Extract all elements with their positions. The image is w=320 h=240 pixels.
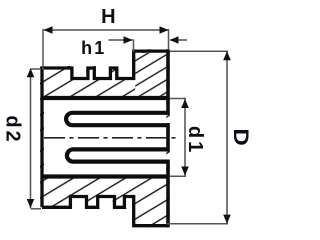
bore interior (white cavity of diameter d1) [44,100,166,175]
upper expansion slot (capsule, rounded left end) [66,113,169,125]
extension line, bore top (for d1) [170,98,187,100]
section hatching, lower wall and flange [40,49,170,227]
extension line, body bottom (for d2) [31,208,42,210]
axis centerline (dash-dot) [44,137,177,139]
svg-text:H: H [101,6,115,28]
svg-text:D: D [230,128,253,145]
dimension line H [44,29,168,31]
extension line, body left face (for H) [42,29,44,70]
flange right face, upper segment [166,49,170,115]
arrowhead d1 top [181,99,189,108]
extension line, flange left face (for h1) [133,39,135,52]
arrowhead D top [223,51,231,60]
lower expansion slot (capsule, rounded left end) [67,149,170,161]
arrowhead h1 right (points left) [170,36,179,44]
svg-text:h1: h1 [81,38,106,58]
dimension line D [226,52,228,224]
arrowhead h1 left (points right) [124,36,133,44]
flange right face, lower segment [166,160,170,228]
arrowhead H left [44,26,53,34]
arrowhead D bottom [223,215,231,224]
extension line, flange bottom (for D) [167,223,228,225]
extension line, bore bottom (for d1) [170,175,187,177]
extension line, body top (for d2) [31,68,42,70]
dimension line h1, left leader [109,39,133,41]
extension line, flange top (for D) [170,50,228,52]
arrowhead H right [160,26,169,34]
flange right face, middle segment between slot openings [166,123,170,152]
arrowhead d1 bottom [181,167,189,176]
section hatching, flange top region (denser pitch) [135,53,166,96]
svg-text:d2: d2 [1,115,23,144]
bore top edge line [42,96,170,100]
dimension line d1 [184,99,186,176]
section hatching, upper wall and flange (dowel body cross-section) [40,49,170,227]
dimension line h1, right leader [171,39,188,41]
extension line, flange right face (for H and h1) [168,29,170,49]
arrowhead d2 bottom [27,199,35,208]
arrowhead d2 top [27,68,35,77]
bore bottom edge line [42,174,170,178]
outer profile outline: left face, ribbed top, flange, ribbed bottom [42,51,168,226]
svg-text:d1: d1 [184,126,206,155]
dimension line d2 [30,69,32,208]
